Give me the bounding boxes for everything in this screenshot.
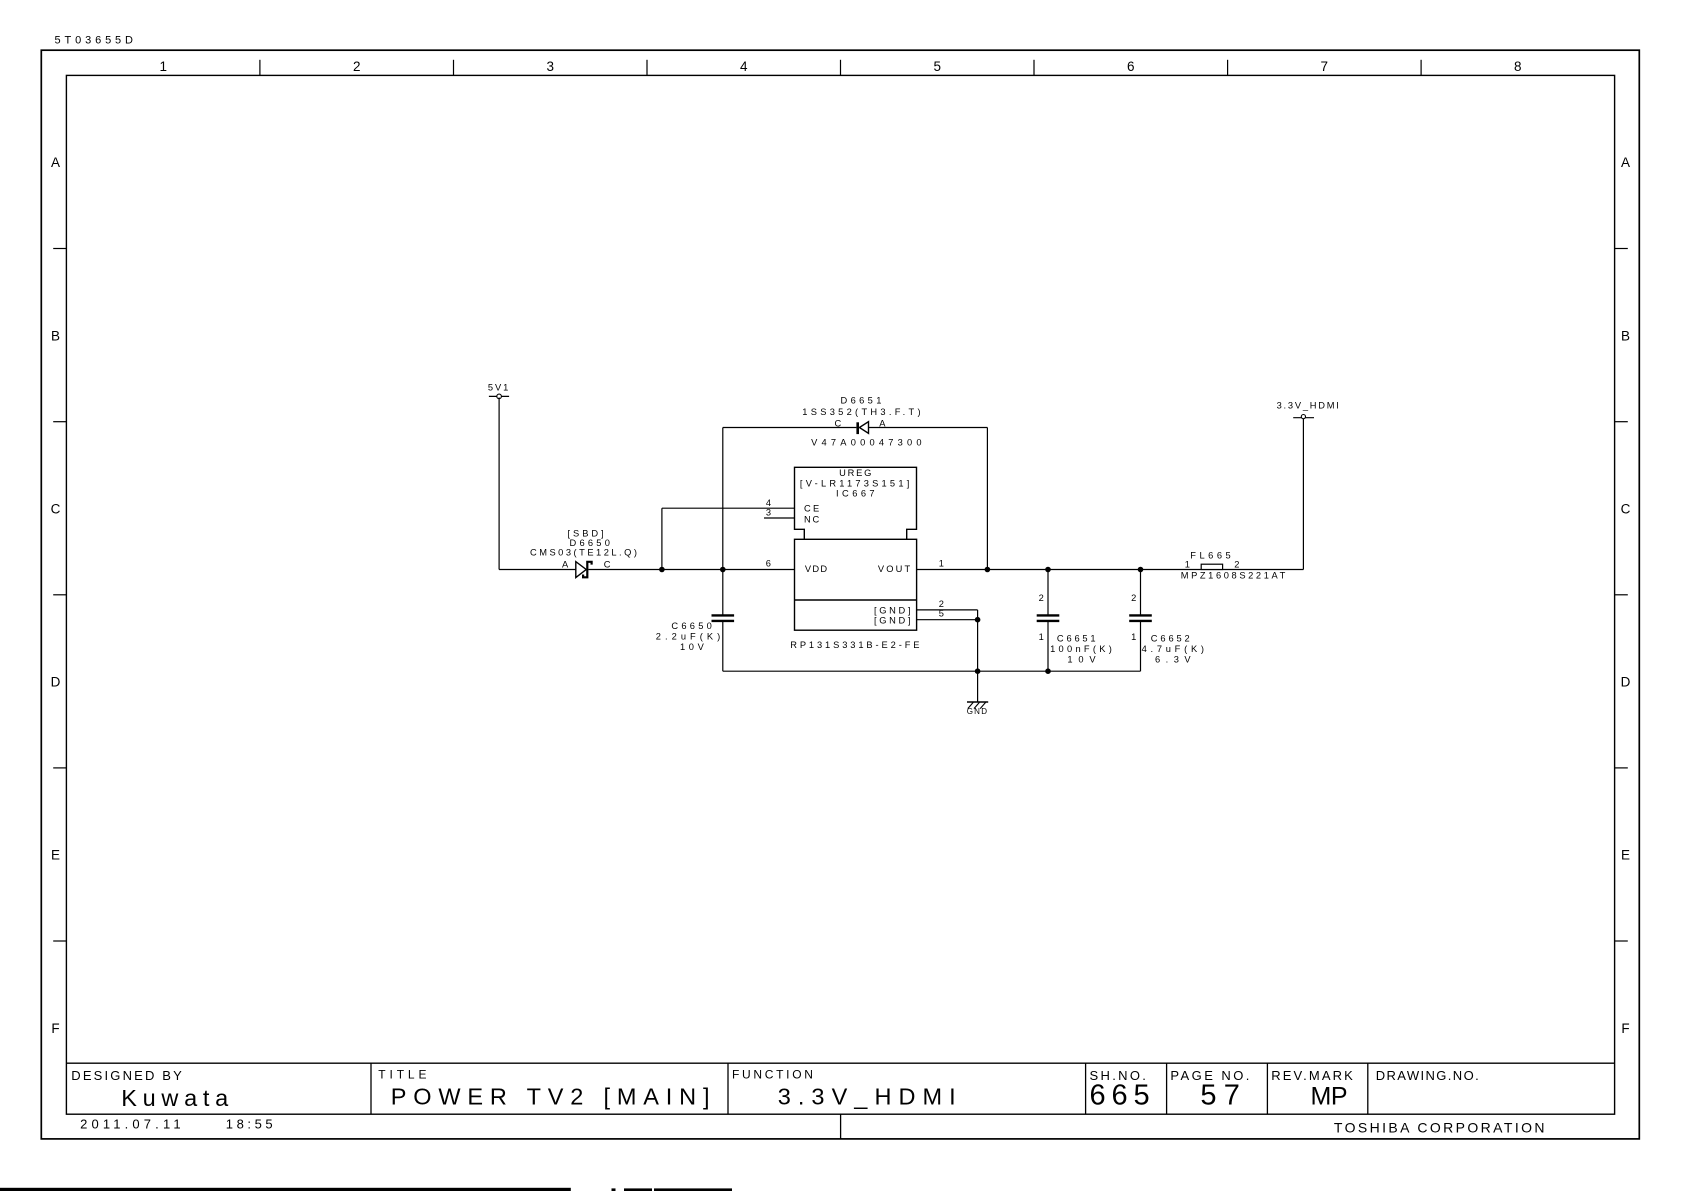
wire GND stem — [977, 620, 979, 702]
svg-text:2: 2 — [1131, 593, 1136, 603]
wire D6650 cathode to IC667 VDD (node VDD) — [588, 569, 794, 571]
svg-text:B: B — [51, 328, 60, 343]
svg-text:10V: 10V — [680, 642, 705, 652]
svg-text:4: 4 — [766, 498, 771, 508]
junction C6651 bottom — [1045, 668, 1051, 674]
ferrite bead FL665 — [1181, 551, 1286, 581]
svg-text:FUNCTION: FUNCTION — [732, 1068, 813, 1082]
svg-text:A: A — [51, 155, 60, 170]
svg-text:C: C — [51, 501, 61, 516]
svg-text:E: E — [1621, 848, 1630, 863]
svg-text:665: 665 — [1090, 1080, 1150, 1112]
svg-text:E: E — [51, 848, 60, 863]
svg-text:A: A — [1621, 155, 1630, 170]
svg-text:D6651: D6651 — [841, 396, 882, 406]
svg-text:1: 1 — [1185, 560, 1190, 570]
svg-text:GND: GND — [967, 707, 988, 716]
junction C6652 top — [1138, 567, 1144, 573]
svg-text:2: 2 — [1234, 560, 1239, 570]
svg-text:UREG: UREG — [839, 468, 871, 478]
svg-text:1: 1 — [159, 59, 167, 74]
wire GND pin 5 — [917, 619, 978, 621]
svg-text:6: 6 — [1127, 59, 1135, 74]
svg-text:7: 7 — [1321, 59, 1329, 74]
junction GND rail — [975, 668, 981, 674]
svg-text:1: 1 — [939, 559, 944, 569]
junction C6651 top — [1045, 567, 1051, 573]
wire 5V1 to D6650 anode — [499, 398, 576, 570]
wire GND pin 2 — [917, 610, 978, 620]
diode D6650 (Schottky SBD) — [530, 529, 637, 578]
svg-text:NC: NC — [804, 514, 819, 524]
wire to 3.3V_HDMI — [1302, 418, 1304, 570]
svg-text:18:55: 18:55 — [226, 1116, 273, 1131]
svg-text:A: A — [879, 418, 886, 428]
capacitor C6652 4.7uF — [1129, 570, 1204, 672]
svg-text:DESIGNED BY: DESIGNED BY — [71, 1068, 182, 1083]
capacitor C6650 2.2uF — [656, 615, 734, 651]
wire C6650 bottom to ground rail — [723, 621, 1141, 671]
svg-text:C: C — [835, 418, 842, 428]
svg-text:1: 1 — [1039, 632, 1044, 642]
svg-text:D6650: D6650 — [570, 538, 610, 548]
svg-text:5T03655D: 5T03655D — [55, 35, 135, 47]
ground symbol GND — [967, 702, 989, 716]
capacitor C6651 100nF — [1037, 570, 1112, 672]
svg-text:C6652: C6652 — [1151, 634, 1190, 644]
svg-text:10V: 10V — [1067, 654, 1096, 664]
power terminal 5V1 — [488, 383, 509, 399]
svg-text:C6651: C6651 — [1057, 634, 1096, 644]
svg-text:[GND]: [GND] — [874, 615, 911, 625]
wire VOUT (node 3.3V) — [917, 569, 1304, 571]
junction at C6650/D6651 column — [720, 567, 726, 573]
diode D6651 — [802, 396, 921, 448]
svg-text:3: 3 — [766, 507, 771, 517]
wire NC stub pin 3 — [764, 517, 795, 519]
svg-text:1SS352(TH3.F.T): 1SS352(TH3.F.T) — [802, 407, 920, 417]
svg-text:5: 5 — [939, 609, 944, 619]
svg-text:3: 3 — [546, 59, 554, 74]
wire CE tap up to pin 4 — [662, 508, 795, 569]
junction at CE tap — [659, 567, 665, 573]
svg-text:4: 4 — [740, 59, 748, 74]
svg-text:IC667: IC667 — [836, 488, 875, 498]
svg-text:DRAWING.NO.: DRAWING.NO. — [1376, 1068, 1479, 1083]
svg-text:C: C — [1621, 501, 1631, 516]
svg-text:5: 5 — [934, 59, 942, 74]
svg-text:2: 2 — [353, 59, 361, 74]
net terminal 3.3V_HDMI — [1277, 401, 1339, 419]
wire vertical D6651 top-left / C6650 top — [722, 428, 724, 615]
junction D6651 right leg — [985, 567, 991, 573]
svg-text:8: 8 — [1514, 59, 1522, 74]
svg-text:2: 2 — [1039, 593, 1044, 603]
svg-text:C6650: C6650 — [671, 621, 711, 631]
svg-text:[V-LR1173S151]: [V-LR1173S151] — [800, 479, 909, 489]
svg-text:VDD: VDD — [805, 564, 827, 574]
svg-text:A: A — [562, 560, 569, 570]
svg-text:MP: MP — [1311, 1083, 1348, 1111]
svg-text:CMS03(TE12L.Q): CMS03(TE12L.Q) — [530, 548, 637, 558]
regulator IC667 UREG V-LR1173S151 — [790, 467, 919, 650]
svg-text:3.3V_HDMI: 3.3V_HDMI — [1277, 401, 1339, 411]
svg-text:1: 1 — [1131, 632, 1136, 642]
junction pins 2/5 — [975, 617, 981, 623]
svg-text:C: C — [604, 560, 611, 570]
svg-text:[GND]: [GND] — [874, 606, 911, 616]
wire top loop (D6651 branch) — [723, 428, 988, 570]
svg-text:D: D — [1621, 675, 1631, 690]
svg-text:REV.MARK: REV.MARK — [1271, 1068, 1353, 1083]
svg-text:TITLE: TITLE — [378, 1068, 426, 1082]
svg-text:B: B — [1621, 328, 1630, 343]
svg-text:RP131S331B-E2-FE: RP131S331B-E2-FE — [790, 640, 919, 650]
svg-text:F: F — [51, 1021, 59, 1036]
svg-text:2: 2 — [939, 599, 944, 609]
svg-text:5V1: 5V1 — [488, 383, 508, 393]
svg-text:6: 6 — [766, 559, 771, 569]
svg-text:D: D — [51, 675, 61, 690]
svg-text:F: F — [1621, 1021, 1629, 1036]
